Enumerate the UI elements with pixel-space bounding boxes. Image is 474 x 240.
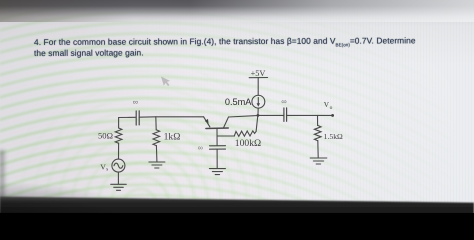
svg-text:+5V: +5V: [251, 69, 266, 78]
svg-text:∞: ∞: [198, 143, 203, 152]
svg-text:100kΩ: 100kΩ: [235, 138, 261, 149]
svg-text:o: o: [330, 105, 333, 111]
svg-text:1kΩ: 1kΩ: [164, 131, 181, 142]
svg-text:0.5mA: 0.5mA: [225, 97, 252, 107]
svg-text:1.5kΩ: 1.5kΩ: [324, 132, 343, 141]
svg-text:s: s: [106, 168, 108, 173]
svg-text:∞: ∞: [281, 97, 287, 106]
svg-text:∞: ∞: [133, 97, 139, 106]
svg-text:50Ω: 50Ω: [98, 131, 113, 141]
